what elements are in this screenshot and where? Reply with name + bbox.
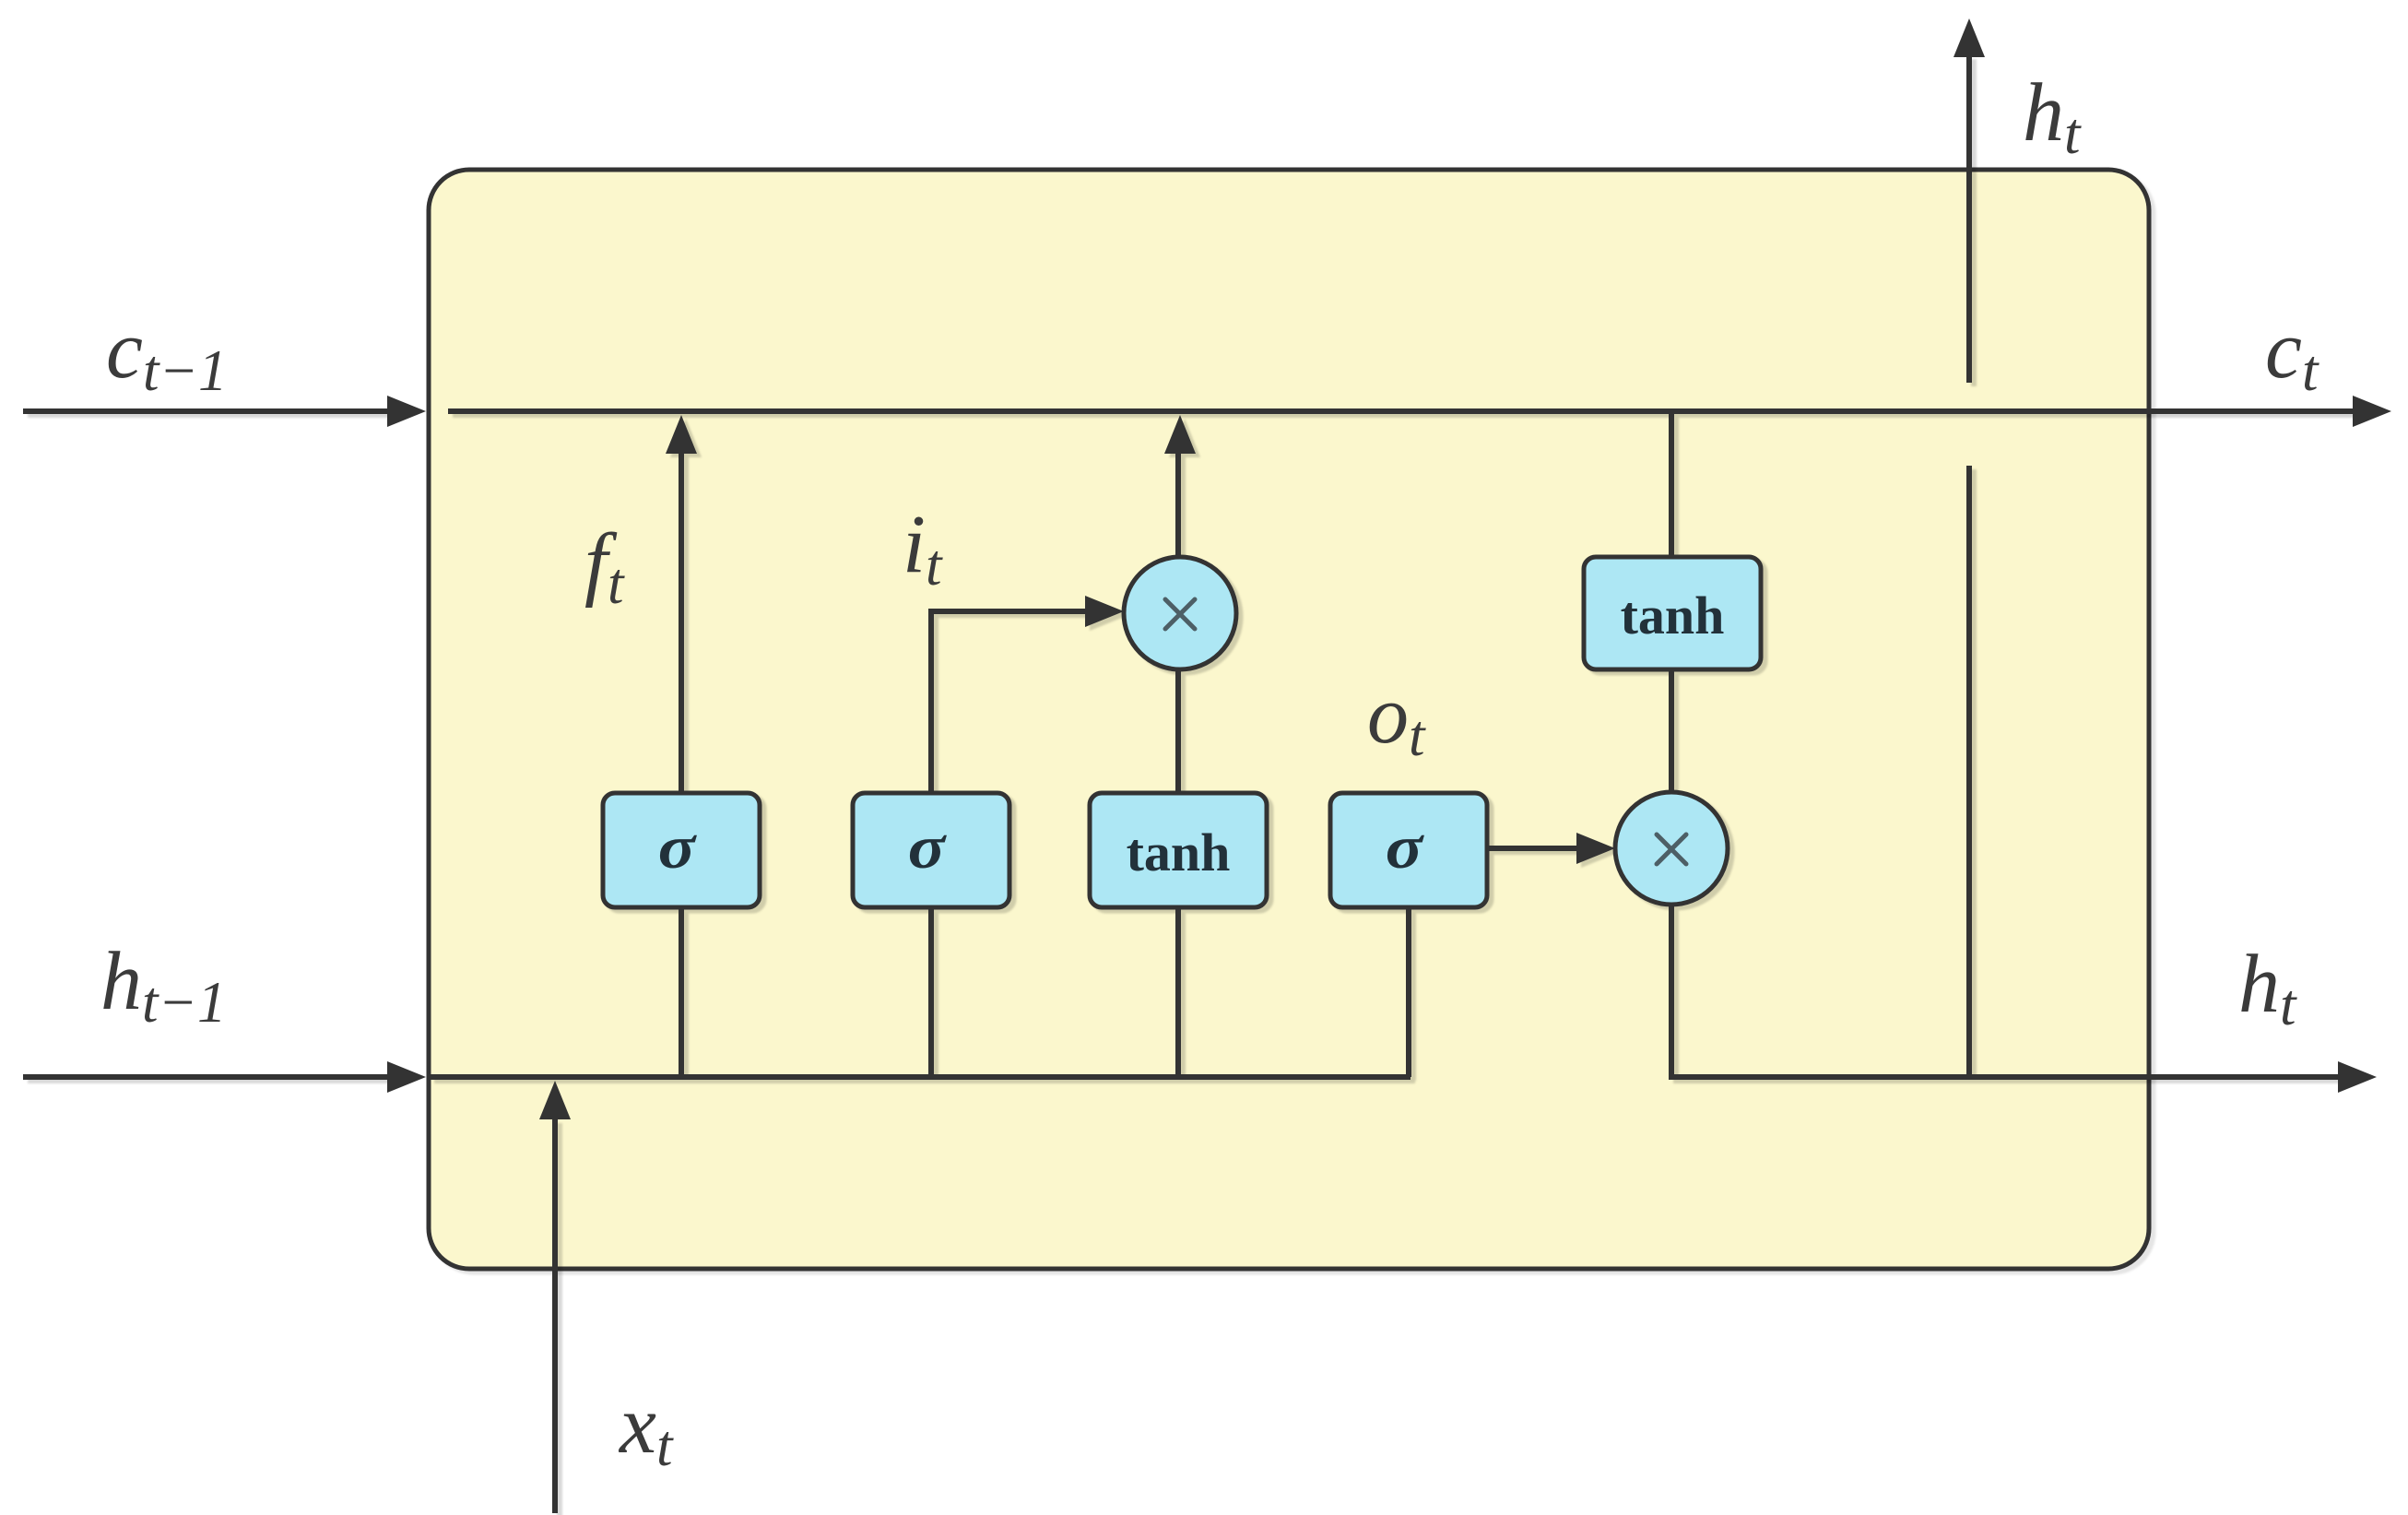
svg-text:σ: σ bbox=[908, 814, 948, 882]
svg-text:σ: σ bbox=[658, 814, 698, 882]
svg-text:tanh: tanh bbox=[1621, 586, 1725, 645]
svg-text:tanh: tanh bbox=[1127, 823, 1231, 882]
svg-text:σ: σ bbox=[1386, 814, 1425, 882]
